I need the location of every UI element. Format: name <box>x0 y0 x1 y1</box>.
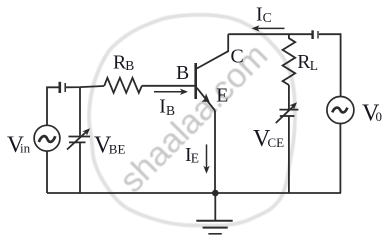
label I_B <box>159 96 175 119</box>
svg-text:E: E <box>191 151 199 166</box>
V_CE source top plate <box>279 109 298 111</box>
svg-text:0: 0 <box>376 109 383 124</box>
ground bar 3 <box>208 233 221 235</box>
watermark ring <box>89 15 295 226</box>
wire left top corner <box>47 87 59 125</box>
svg-text:B: B <box>166 103 175 118</box>
arrowhead I_B <box>180 89 188 95</box>
V_CE variable arrow <box>276 105 295 123</box>
arrow I_B shaft <box>154 91 185 93</box>
ground stem <box>214 193 216 221</box>
arrowhead I_C <box>252 25 260 31</box>
wire battery to right corner <box>319 34 341 96</box>
V_BE source bottom plate <box>69 141 86 143</box>
bottom rail wire <box>47 192 341 194</box>
arrowhead I_E <box>203 166 209 174</box>
arrowhead emitter <box>202 93 210 102</box>
wire V_in to rail <box>46 151 48 193</box>
V_BE variable arrow <box>67 131 88 150</box>
wire V_0 to rail <box>339 124 341 194</box>
svg-text:C: C <box>231 46 244 68</box>
svg-text:CE: CE <box>268 135 285 150</box>
arrowhead V_BE <box>82 128 90 135</box>
top rail wire <box>228 33 311 35</box>
svg-text:BE: BE <box>109 141 126 156</box>
transistor Q1 base bar <box>194 63 197 99</box>
svg-text:L: L <box>310 58 318 73</box>
svg-text:E: E <box>216 85 228 107</box>
V_CE source bottom plate <box>280 115 295 117</box>
junction node dot <box>212 190 219 197</box>
arrow I_C shaft <box>255 27 285 29</box>
ground bar 2 <box>203 227 228 229</box>
transistor Q1 collector lead <box>197 34 228 68</box>
label R_L <box>297 51 318 73</box>
wire R_B to base <box>142 85 195 87</box>
label I_C <box>256 4 272 26</box>
svg-text:I: I <box>159 96 166 118</box>
resistor R_B <box>104 78 142 93</box>
resistor R_L <box>283 34 296 85</box>
wire V_BE branch upper <box>79 87 81 136</box>
wire battery to R_B <box>66 86 104 87</box>
wire V_BE branch lower <box>79 142 81 193</box>
label V_CE <box>253 126 284 152</box>
V_BE source top plate <box>69 136 91 138</box>
AC source V_0 sine <box>332 108 347 113</box>
battery (input coupling) short plate <box>64 83 66 92</box>
svg-text:B: B <box>176 62 189 84</box>
transistor Q1 emitter lead <box>197 88 215 111</box>
AC source V_0 circle <box>327 97 354 124</box>
svg-text:C: C <box>263 10 272 25</box>
label V_in <box>7 132 31 158</box>
battery (input coupling) long plate <box>58 82 61 93</box>
wire R_L to V_CE <box>288 85 290 109</box>
wire emitter down <box>214 111 216 194</box>
arrowhead V_CE <box>289 102 297 109</box>
ground bar 1 <box>196 220 232 222</box>
arrow I_E shaft <box>206 144 208 169</box>
AC source V_in circle <box>34 125 60 151</box>
label V_0 <box>362 100 382 126</box>
label I_E <box>185 144 199 166</box>
battery (output coupling) short plate <box>317 31 319 39</box>
AC source V_in sine <box>39 136 56 142</box>
label R_B <box>113 51 134 73</box>
svg-text:I: I <box>256 4 263 26</box>
battery (output coupling) long plate <box>311 30 313 39</box>
svg-text:in: in <box>20 141 31 156</box>
wire V_CE to rail <box>288 116 290 193</box>
svg-text:B: B <box>125 58 134 73</box>
label V_BE <box>94 133 125 159</box>
